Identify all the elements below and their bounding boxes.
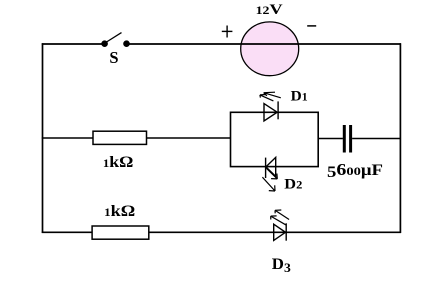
wire parallel box D1 D2 xyxy=(231,112,319,166)
wire bottom xyxy=(42,231,401,233)
diode D1 xyxy=(264,101,278,121)
D2 light arrows xyxy=(262,168,277,191)
resistor R1 (1k) xyxy=(93,131,147,144)
diode D3 xyxy=(274,223,287,240)
left rail wire xyxy=(42,43,44,233)
svg-text:D3: D3 xyxy=(272,256,292,275)
voltage source V1 (12V) xyxy=(241,22,299,76)
svg-text:12V: 12V xyxy=(256,2,283,18)
D1 light arrows xyxy=(260,92,281,101)
wire box to capacitor xyxy=(318,138,343,140)
svg-text:D2: D2 xyxy=(284,176,302,192)
capacitor C1 (5600uF) xyxy=(344,125,350,153)
diode D2 xyxy=(266,157,276,178)
wire top right xyxy=(127,43,402,45)
svg-text:S: S xyxy=(109,48,118,67)
switch S xyxy=(101,33,130,47)
wire capacitor to right rail xyxy=(352,138,400,140)
svg-text:1kΩ: 1kΩ xyxy=(103,154,134,171)
D3 light arrows xyxy=(271,210,289,225)
svg-text:D1: D1 xyxy=(291,88,308,104)
polarity - xyxy=(307,25,316,27)
polarity + xyxy=(222,26,233,38)
wire top left xyxy=(42,43,104,45)
svg-text:5600μF: 5600μF xyxy=(327,160,383,181)
svg-text:1kΩ: 1kΩ xyxy=(104,203,135,220)
resistor R2 (1k) xyxy=(92,226,149,239)
wire middle branch xyxy=(42,137,231,139)
right rail wire xyxy=(399,43,401,233)
